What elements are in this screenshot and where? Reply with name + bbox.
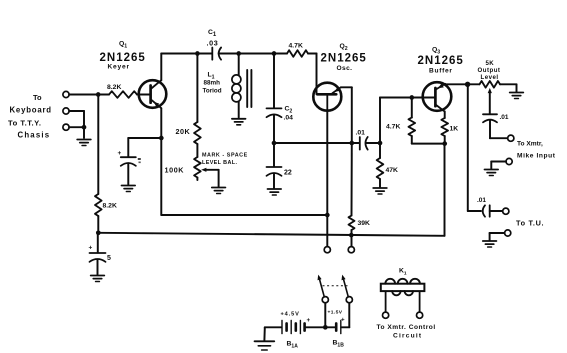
- svg-text:Chasis: Chasis: [18, 131, 51, 140]
- svg-text:20K: 20K: [176, 127, 191, 136]
- ground L1: [232, 119, 246, 125]
- svg-text:Osc.: Osc.: [337, 65, 353, 72]
- label 2N1265 keyer: [100, 52, 146, 64]
- wire to TU terminal: [490, 210, 503, 212]
- node bottom rail left: [96, 230, 101, 235]
- label mark-space level bal: [202, 153, 248, 167]
- resistor 39K: [349, 143, 371, 247]
- terminal To T.T.Y. Chasis: [8, 119, 69, 140]
- wire keyboard node down: [97, 95, 99, 195]
- wire S1a arm down: [324, 303, 326, 328]
- svg-text:.01: .01: [477, 197, 486, 204]
- switch S1b arm: [342, 275, 353, 303]
- svg-text:Output: Output: [478, 67, 501, 74]
- wire rail1 (Q1 emitter to Q2 collector): [161, 214, 327, 216]
- switch gang link (dashed): [323, 285, 349, 287]
- node C2 tap: [272, 51, 277, 56]
- svg-text:To: To: [33, 93, 42, 102]
- svg-text:88mh: 88mh: [204, 80, 221, 87]
- wire TU branch: [468, 84, 481, 211]
- wire keyboard return: [69, 111, 84, 138]
- svg-text:Keyer: Keyer: [108, 64, 130, 71]
- resistor 4.7K (Q3 bias): [386, 98, 415, 144]
- label Q3: [432, 47, 440, 56]
- terminal To Keyboard (top input): [10, 91, 70, 114]
- capacitor .01 (osc coupling): [356, 130, 368, 150]
- svg-text:+1.5V: +1.5V: [328, 310, 343, 316]
- svg-text:+: +: [307, 317, 311, 324]
- svg-text:To T.U.: To T.U.: [516, 219, 544, 228]
- ground 5uF cap: [91, 276, 105, 282]
- svg-text:.01: .01: [500, 114, 509, 121]
- label Keyer: [108, 64, 130, 71]
- wire battery right: [341, 326, 349, 328]
- svg-text:.01: .01: [356, 130, 366, 137]
- terminal mike ground: [506, 158, 512, 164]
- svg-text:8.2K: 8.2K: [103, 203, 117, 210]
- inductor L1 88mh toroid: [232, 54, 252, 118]
- svg-text:.04: .04: [284, 115, 294, 122]
- potentiometer 5K output level: [480, 81, 517, 114]
- ground mike return: [485, 170, 499, 176]
- node battery junction: [323, 325, 328, 330]
- node L1 tap: [236, 51, 241, 56]
- wire Q1 emitter column: [160, 108, 162, 215]
- transistor Q1 2N1265 Keyer: [139, 80, 167, 108]
- ground chassis: [77, 140, 91, 146]
- label L1 88mh Toriod: [203, 72, 222, 95]
- svg-text:To T.T.Y.: To T.T.Y.: [8, 119, 41, 128]
- wire mike ground: [491, 162, 506, 169]
- capacitor 22 (emitter bypass): [267, 143, 292, 188]
- resistor 1K (Q3 collector): [441, 112, 458, 144]
- svg-text:4.7K: 4.7K: [386, 124, 400, 131]
- potentiometer 100K mark-space: [165, 157, 219, 187]
- svg-text:Keyboard: Keyboard: [10, 106, 52, 115]
- terminal To T.U.: [503, 208, 545, 227]
- wire Q2 collector column: [326, 111, 328, 247]
- svg-text:22: 22: [284, 170, 292, 177]
- svg-text:+: +: [118, 150, 122, 157]
- label to xmtr control circuit: [377, 324, 436, 340]
- wire top rail left segment: [161, 53, 212, 55]
- svg-text:To Xmtr. Control: To Xmtr. Control: [377, 324, 436, 331]
- label Q1: [119, 41, 127, 50]
- svg-text:8.2K: 8.2K: [107, 84, 121, 91]
- node 47K junction: [378, 141, 383, 146]
- wire rail to ground corner: [516, 84, 518, 91]
- svg-text:47K: 47K: [386, 167, 399, 174]
- resistor 8.2K (vertical, bias): [95, 194, 117, 233]
- wire rail2 (common bottom): [98, 233, 444, 236]
- node Q1 emitter bypass junction: [159, 136, 164, 141]
- capacitor .01 (TU output): [477, 197, 490, 217]
- capacitor C2 .04: [267, 54, 294, 144]
- wire 4.7K bottom link: [412, 143, 445, 145]
- resistor 20K: [176, 54, 201, 158]
- node keyboard junction: [96, 92, 101, 97]
- terminal relay lead 1: [383, 312, 389, 318]
- wire Q3 collector column down: [444, 144, 446, 236]
- svg-text:+: +: [341, 317, 345, 324]
- node 1K bottom: [442, 141, 447, 146]
- capacitor C1 .03: [207, 29, 222, 60]
- node output rail tap: [465, 82, 470, 87]
- switch S1a arm: [318, 275, 329, 303]
- ground battery: [255, 341, 275, 350]
- svg-text:2N1265: 2N1265: [321, 53, 367, 65]
- svg-text:Circuit: Circuit: [393, 333, 422, 340]
- wire battery ground lead: [263, 327, 265, 340]
- wire top rail to Q2 base corner: [308, 54, 317, 95]
- node Q3 base / 4.7K: [409, 95, 414, 100]
- svg-text:4.7K: 4.7K: [289, 43, 303, 50]
- resistor 4.7K (collector feed): [287, 43, 308, 57]
- label 2N1265 osc: [321, 53, 367, 65]
- svg-text:1K: 1K: [450, 126, 459, 133]
- switch S1b fixed contact: [348, 247, 354, 253]
- label 2N1265 buffer: [418, 55, 464, 67]
- capacitor 5 uF (electrolytic): [89, 233, 112, 275]
- node tty junction: [82, 125, 87, 130]
- node emitter tap: [349, 141, 354, 146]
- ground 47K: [373, 188, 387, 194]
- label 5K output level: [478, 60, 501, 81]
- ground 22 cap: [268, 189, 282, 195]
- wire bypass branch: [128, 138, 161, 157]
- svg-text:Buffer: Buffer: [429, 68, 453, 75]
- ground Q1 bypass cap: [122, 186, 136, 192]
- wire osc feedback: [274, 142, 359, 144]
- wire battery mid: [305, 326, 336, 328]
- wire Q3 emitter rail: [445, 83, 479, 85]
- svg-text:Mike Input: Mike Input: [517, 153, 556, 160]
- svg-text:Toriod: Toriod: [203, 88, 222, 95]
- label Q2: [340, 43, 348, 52]
- ground output pot: [510, 93, 524, 99]
- wire after .01: [366, 142, 380, 144]
- ground pot wiper: [212, 188, 226, 194]
- svg-text:.03: .03: [207, 39, 219, 48]
- node C2/22 junction: [272, 141, 277, 146]
- wire TU ground: [490, 233, 505, 240]
- terminal keyboard return: [63, 108, 69, 114]
- svg-text:2N1265: 2N1265: [418, 55, 464, 67]
- svg-text:+4.5V: +4.5V: [281, 312, 300, 318]
- ground TU return: [483, 241, 497, 247]
- terminal TU ground: [505, 230, 511, 236]
- wire Q1 collector to top rail: [160, 54, 162, 81]
- node 39K bottom: [349, 233, 354, 238]
- resistor 47K: [377, 143, 398, 187]
- wire battery left: [265, 326, 282, 328]
- svg-text:5: 5: [107, 255, 111, 262]
- transistor Q3 2N1265 Buffer: [423, 82, 452, 111]
- svg-text:MARK - SPACE: MARK - SPACE: [202, 153, 248, 159]
- battery B1B +1.5V: [328, 310, 346, 349]
- wire top rail mid segment: [219, 53, 287, 55]
- svg-text:+: +: [89, 245, 93, 252]
- svg-text:39K: 39K: [358, 220, 371, 227]
- wire S1b arm down: [348, 303, 350, 328]
- terminal To Xmtr Mike Input: [508, 135, 556, 159]
- svg-text:To Xmtr,: To Xmtr,: [517, 141, 543, 148]
- wire tty chassis to ground column: [69, 126, 84, 128]
- resistor 8.2K (Q1 base): [98, 84, 150, 98]
- label Osc.: [337, 65, 353, 72]
- wire to mike terminal: [490, 137, 508, 139]
- label Buffer: [429, 68, 453, 75]
- switch S1a fixed contact: [324, 247, 330, 253]
- svg-text:LEVEL BAL.: LEVEL BAL.: [202, 160, 237, 166]
- node Q2 collector / rail1: [325, 213, 330, 218]
- svg-text:Level: Level: [481, 74, 499, 81]
- node 20K tap: [195, 51, 200, 56]
- speck cap value mark: [138, 158, 141, 163]
- capacitor Q1 emitter bypass (electrolytic): [118, 150, 136, 185]
- capacitor .01 (mike output): [483, 114, 509, 138]
- transistor Q2 2N1265 Osc: [313, 83, 341, 111]
- wire keyboard terminal to node: [69, 94, 98, 96]
- wire riser to Q3 base: [380, 98, 435, 144]
- battery B1A +4.5V: [281, 312, 311, 350]
- svg-text:100K: 100K: [165, 166, 185, 175]
- relay K1 coil: [381, 268, 425, 313]
- svg-text:2N1265: 2N1265: [100, 52, 146, 64]
- wire Q2 emitter right: [341, 87, 352, 143]
- terminal relay lead 2: [417, 312, 423, 318]
- svg-text:5K: 5K: [486, 60, 495, 67]
